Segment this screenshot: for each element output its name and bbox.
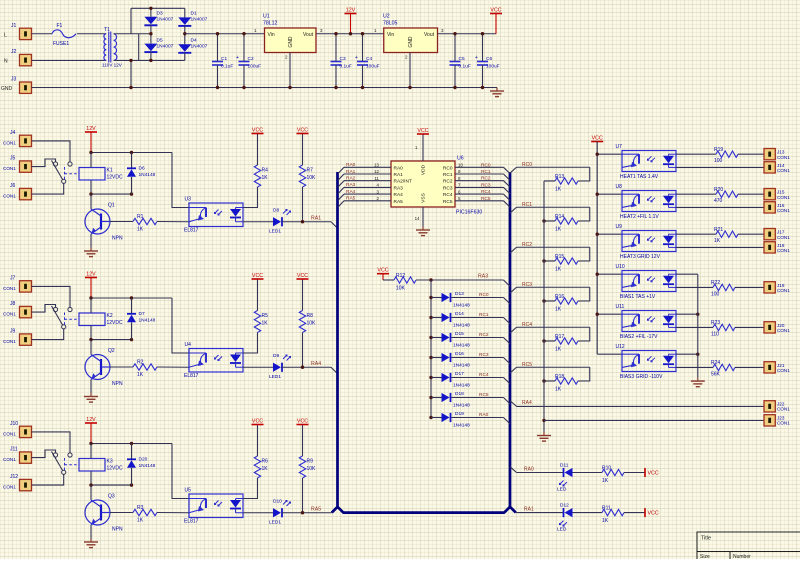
fuse F1 — [52, 30, 76, 38]
wire DC rail to U1 — [185, 33, 265, 35]
wire base resistor to opto — [157, 366, 189, 368]
junction — [89, 296, 92, 299]
svg-text:110: 110 — [711, 331, 719, 337]
bus entry — [330, 512, 333, 514]
bus entry — [504, 358, 511, 364]
svg-text:RA1: RA1 — [311, 216, 321, 222]
diode D7 — [131, 298, 133, 314]
wire net RC4 from bus — [510, 327, 517, 333]
wire VCC to opto U11 — [597, 313, 622, 315]
svg-text:CON1: CON1 — [777, 288, 790, 293]
junction — [481, 32, 484, 35]
wire led to resistor R10 — [573, 472, 603, 474]
svg-text:N: N — [4, 59, 8, 65]
svg-text:CON1: CON1 — [777, 407, 790, 412]
svg-text:R6: R6 — [262, 459, 269, 465]
svg-text:RC1: RC1 — [443, 172, 453, 178]
wire opto out bottom — [676, 326, 713, 328]
svg-text:J11: J11 — [10, 447, 18, 453]
wire fuse to transformer — [77, 33, 106, 35]
junction — [242, 86, 245, 89]
svg-text:RA4: RA4 — [522, 400, 532, 406]
svg-text:RC4: RC4 — [522, 322, 532, 328]
junction — [429, 316, 432, 319]
svg-text:K1: K1 — [107, 168, 113, 174]
svg-text:RC2: RC2 — [479, 332, 489, 338]
optocoupler U7 — [622, 151, 676, 172]
svg-text:EL817: EL817 — [184, 519, 199, 525]
capacitor C1 — [217, 34, 219, 62]
junction — [301, 220, 304, 223]
junction — [130, 151, 133, 154]
wire relay top — [90, 444, 92, 459]
svg-text:Q2: Q2 — [108, 348, 115, 354]
svg-text:10K: 10K — [307, 321, 317, 327]
bus entry — [504, 398, 511, 404]
wire led to bus stub — [282, 366, 331, 368]
svg-text:1N4148: 1N4148 — [139, 463, 156, 469]
resistor R15 — [555, 258, 578, 264]
junction — [242, 32, 245, 35]
svg-text:1K: 1K — [602, 478, 609, 484]
svg-text:1N4007: 1N4007 — [157, 17, 174, 23]
pin VDD wire — [422, 134, 424, 161]
resistor R17 — [555, 338, 578, 344]
svg-text:VCC: VCC — [252, 127, 263, 133]
wire base resistor to opto — [157, 512, 189, 514]
junction — [696, 313, 699, 316]
svg-text:CON1: CON1 — [777, 155, 790, 160]
ground channel — [90, 393, 92, 397]
resistor R4 — [254, 165, 260, 187]
junction — [542, 219, 545, 222]
svg-text:10K: 10K — [396, 286, 406, 292]
led D12 — [563, 508, 565, 517]
optocoupler U12 — [622, 351, 676, 372]
connector J22 — [764, 401, 775, 412]
bus entry — [331, 222, 338, 229]
svg-text:J10: J10 — [10, 421, 18, 427]
svg-text:1K: 1K — [555, 187, 562, 193]
svg-text:RA5: RA5 — [346, 196, 356, 202]
svg-text:J12: J12 — [10, 474, 18, 480]
connector J3 — [20, 82, 32, 93]
junction — [596, 233, 599, 236]
junction — [696, 353, 699, 356]
wire rail to opto top — [172, 298, 189, 353]
relay blade — [52, 452, 63, 471]
svg-text:C3: C3 — [340, 56, 346, 62]
svg-text:U3: U3 — [185, 197, 192, 203]
wire net RC3 from bus — [510, 287, 517, 293]
junction — [542, 419, 545, 422]
svg-text:1K: 1K — [137, 227, 144, 233]
svg-text:RC3: RC3 — [522, 282, 532, 288]
wire resistor to connector — [738, 233, 764, 235]
ic U6 PIC16F630 — [391, 161, 455, 207]
wire net RC1 from bus — [510, 207, 517, 213]
connector J13 — [764, 149, 775, 160]
bus entry — [504, 318, 511, 324]
wire relay bottom rail — [91, 193, 132, 195]
regulator U1 — [265, 28, 317, 53]
junction — [130, 483, 133, 486]
svg-text:1K: 1K — [262, 321, 269, 327]
wire collector — [90, 340, 92, 355]
svg-text:1N4148: 1N4148 — [453, 323, 470, 329]
connector J18 — [764, 242, 775, 253]
svg-text:C2: C2 — [248, 56, 254, 62]
led D9 — [273, 363, 281, 372]
wire net RC0 from bus — [510, 167, 517, 173]
wire opto out — [243, 512, 273, 514]
svg-text:0.1uF: 0.1uF — [221, 64, 233, 70]
svg-text:R21: R21 — [714, 227, 723, 233]
wire corner to resistor — [578, 287, 590, 301]
svg-text:CON1: CON1 — [777, 195, 790, 200]
resistor R11 — [602, 509, 624, 515]
resistor R10 — [602, 469, 624, 475]
junction — [216, 86, 219, 89]
bus entry — [331, 367, 338, 374]
svg-text:RA1: RA1 — [394, 172, 404, 178]
junction — [596, 273, 599, 276]
resistor R2 — [110, 366, 133, 368]
wire corner to resistor — [578, 207, 590, 221]
junction — [596, 193, 599, 196]
svg-text:1K: 1K — [137, 372, 144, 378]
junction — [301, 366, 304, 369]
wire collector — [90, 194, 92, 209]
junction — [542, 299, 545, 302]
resistor R14 — [555, 218, 578, 224]
svg-text:D13: D13 — [455, 291, 464, 297]
svg-text:100uF: 100uF — [486, 64, 500, 70]
svg-text:RC0: RC0 — [522, 162, 532, 168]
wire rail to opto top — [172, 153, 189, 208]
svg-text:14: 14 — [415, 216, 420, 221]
connector J1 — [20, 28, 32, 39]
connector J15 — [764, 189, 775, 200]
svg-text:BIAS2 +FIL -17V: BIAS2 +FIL -17V — [620, 334, 658, 340]
svg-text:CON1: CON1 — [3, 194, 16, 199]
svg-text:R14: R14 — [555, 214, 564, 220]
svg-text:R12: R12 — [396, 273, 405, 279]
svg-text:F1: F1 — [57, 23, 63, 29]
wire 12V rail — [91, 152, 172, 154]
svg-text:RA4: RA4 — [394, 192, 404, 198]
svg-text:1N4148: 1N4148 — [453, 383, 470, 389]
svg-text:U2: U2 — [383, 14, 390, 20]
wire resistor to common — [544, 380, 555, 382]
wire opto top to common — [676, 273, 698, 275]
wire VCC to opto U9 — [597, 233, 622, 235]
diode D6 — [131, 153, 133, 169]
svg-text:78L12: 78L12 — [263, 21, 278, 27]
svg-text:U12: U12 — [616, 344, 625, 350]
svg-text:12VDC: 12VDC — [107, 320, 124, 326]
svg-text:CON1: CON1 — [777, 328, 790, 333]
svg-text:RA0: RA0 — [394, 165, 404, 171]
svg-text:GND: GND — [288, 36, 294, 48]
ground main — [496, 88, 498, 92]
svg-text:RA1: RA1 — [346, 169, 356, 175]
svg-text:12V: 12V — [86, 271, 96, 277]
svg-text:VCC: VCC — [490, 7, 501, 13]
wire corner to resistor — [578, 167, 590, 181]
wire relay bottom rail — [91, 339, 132, 341]
svg-text:+: + — [236, 55, 239, 61]
wire net RA4 to J22 — [510, 401, 517, 407]
svg-text:U4: U4 — [185, 342, 192, 348]
junction — [149, 32, 152, 35]
svg-text:Title: Title — [701, 536, 711, 542]
wire corner to resistor — [578, 367, 590, 381]
svg-text:LED1: LED1 — [269, 374, 281, 380]
connector J21 — [764, 362, 775, 373]
svg-text:10K: 10K — [307, 175, 317, 181]
svg-text:Number: Number — [733, 554, 751, 559]
resistor R18 — [555, 378, 578, 384]
svg-text:U10: U10 — [616, 264, 625, 270]
wire rail to opto top — [172, 444, 189, 499]
wire opto out bottom — [676, 206, 764, 208]
junction — [361, 32, 364, 35]
bus entry RA3 — [504, 280, 511, 286]
svg-text:RC4: RC4 — [479, 372, 489, 378]
wire opto to resistor R6 — [243, 478, 258, 499]
svg-text:1N4148: 1N4148 — [453, 403, 470, 409]
resistor R19 — [716, 151, 738, 157]
svg-text:FUSE1: FUSE1 — [53, 41, 69, 47]
svg-text:Vout: Vout — [424, 32, 435, 38]
junction — [183, 32, 186, 35]
resistor R24 — [713, 364, 735, 370]
junction — [542, 379, 545, 382]
svg-text:VCC: VCC — [252, 418, 263, 424]
svg-text:CON1: CON1 — [3, 485, 16, 490]
diode D20 — [131, 444, 133, 460]
svg-text:12VDC: 12VDC — [107, 175, 124, 181]
optocoupler U5 — [189, 494, 243, 518]
relay blade — [52, 161, 63, 180]
svg-text:D7: D7 — [139, 311, 145, 317]
resistor R12 — [383, 279, 394, 281]
svg-text:RC3: RC3 — [481, 182, 491, 188]
svg-text:J7: J7 — [10, 276, 16, 282]
junction — [429, 376, 432, 379]
led D10 — [273, 508, 281, 517]
wire opto out bottom — [676, 286, 713, 288]
resistor R22 — [713, 284, 735, 290]
svg-text:RC3: RC3 — [479, 352, 489, 358]
svg-text:+: + — [355, 55, 358, 61]
junction — [429, 416, 432, 419]
junction — [596, 313, 599, 316]
svg-text:1K: 1K — [555, 387, 562, 393]
wire resistor to connector — [738, 153, 764, 155]
wire VCC column — [596, 142, 598, 355]
svg-text:R19: R19 — [714, 147, 723, 153]
pin VSS wire — [422, 207, 424, 227]
svg-text:C1: C1 — [221, 56, 227, 62]
wire J to contact right — [32, 432, 71, 453]
svg-text:110V 12V: 110V 12V — [102, 63, 123, 68]
wire led to bus stub — [282, 221, 331, 223]
svg-text:R5: R5 — [262, 313, 269, 319]
svg-text:R15: R15 — [555, 254, 564, 260]
svg-text:Q1: Q1 — [108, 203, 115, 209]
svg-text:1N4148: 1N4148 — [139, 172, 156, 178]
svg-text:R24: R24 — [711, 360, 720, 366]
wire opto out bottom — [676, 166, 764, 168]
svg-text:C5: C5 — [459, 56, 465, 62]
svg-text:J6: J6 — [10, 183, 16, 189]
wire J1 to fuse — [32, 33, 53, 35]
svg-text:78L05: 78L05 — [383, 21, 398, 27]
svg-text:1K: 1K — [262, 466, 269, 472]
bus entry — [504, 338, 511, 344]
wire net RA1 from bus — [516, 512, 564, 514]
wire J to contact common — [32, 184, 64, 195]
svg-text:HEAT1 TAS 1.4V: HEAT1 TAS 1.4V — [620, 174, 659, 180]
svg-text:R20: R20 — [714, 187, 723, 193]
wire secondary bottom AC2 — [114, 59, 185, 61]
svg-text:1N4148: 1N4148 — [453, 423, 470, 429]
svg-text:R4: R4 — [262, 168, 269, 174]
svg-text:PIC16F630: PIC16F630 — [456, 210, 482, 216]
svg-text:CON1: CON1 — [3, 140, 16, 145]
junction — [216, 32, 219, 35]
resistor R5 — [254, 311, 260, 333]
optocoupler U8 — [622, 191, 676, 212]
connector J12 — [20, 479, 32, 490]
wire VCC to opto U7 — [597, 153, 622, 155]
resistor R21 — [716, 231, 738, 237]
resistor R6 — [254, 456, 260, 478]
wire resistor to VCC — [624, 472, 645, 474]
svg-text:D5: D5 — [157, 38, 163, 44]
svg-text:VCC: VCC — [252, 273, 263, 279]
diode D5 — [144, 44, 157, 52]
svg-text:R13: R13 — [555, 174, 564, 180]
svg-text:D19: D19 — [455, 411, 464, 417]
junction — [349, 32, 352, 35]
junction — [130, 296, 133, 299]
junction — [301, 511, 304, 514]
svg-text:470: 470 — [714, 198, 723, 204]
junction — [453, 32, 456, 35]
junction — [542, 259, 545, 262]
svg-text:R17: R17 — [555, 334, 564, 340]
transistor Q3 — [85, 500, 110, 525]
svg-text:RC5: RC5 — [443, 199, 453, 205]
svg-text:VCC: VCC — [417, 128, 428, 134]
wire resistor to common — [544, 180, 555, 182]
svg-text:RC0: RC0 — [479, 292, 489, 298]
svg-text:1N4148: 1N4148 — [453, 343, 470, 349]
svg-text:RA2/INT: RA2/INT — [394, 179, 412, 185]
svg-text:U5: U5 — [185, 488, 192, 494]
connector J8 — [20, 306, 32, 317]
resistor R9 — [299, 456, 305, 478]
wire opto out — [243, 366, 273, 368]
wire emitter to ground — [90, 234, 92, 248]
junction — [429, 278, 432, 281]
wire crosslink — [138, 34, 140, 61]
wire emitter to ground — [90, 380, 92, 394]
resistor R7 — [299, 165, 305, 187]
junction — [149, 59, 152, 62]
wire collector — [90, 485, 92, 500]
svg-text:RA3: RA3 — [394, 185, 404, 191]
junction — [288, 86, 291, 89]
svg-text:U9: U9 — [616, 224, 623, 230]
svg-text:LED: LED — [557, 487, 567, 493]
svg-text:0.1uF: 0.1uF — [459, 64, 471, 70]
svg-text:R10: R10 — [602, 466, 611, 472]
wire J to contact left — [32, 450, 56, 458]
svg-text:1N4007: 1N4007 — [157, 44, 174, 50]
junction — [453, 86, 456, 89]
ground resistor common — [543, 432, 545, 436]
wire R12 to bus — [416, 279, 504, 281]
svg-text:100: 100 — [711, 291, 720, 297]
svg-text:CON1: CON1 — [3, 166, 16, 171]
junction — [429, 356, 432, 359]
svg-text:D11: D11 — [560, 463, 569, 469]
svg-text:R2: R2 — [137, 360, 144, 366]
wire opto to resistor R5 — [243, 333, 258, 354]
svg-text:Size: Size — [700, 554, 710, 559]
connector J6 — [20, 188, 32, 199]
svg-text:R8: R8 — [307, 313, 314, 319]
wire 12V rail — [91, 297, 172, 299]
junction — [129, 86, 132, 89]
junction — [129, 59, 132, 62]
svg-text:GND: GND — [408, 36, 414, 48]
svg-text:RC2: RC2 — [522, 242, 532, 248]
resistor R8 — [299, 311, 305, 333]
svg-text:D12: D12 — [560, 503, 569, 509]
svg-text:D3: D3 — [157, 11, 163, 17]
svg-text:HEAT3 GRID 12V: HEAT3 GRID 12V — [620, 254, 661, 260]
connector J2 — [20, 54, 32, 65]
wire J to contact right — [32, 286, 71, 307]
wire relay bottom — [90, 326, 92, 340]
svg-text:RC1: RC1 — [522, 202, 532, 208]
wire U1 out rail — [316, 33, 384, 35]
svg-text:VCC: VCC — [297, 273, 308, 279]
connector J9 — [20, 334, 32, 345]
svg-text:VSS: VSS — [421, 193, 427, 203]
svg-text:RC4: RC4 — [481, 189, 491, 195]
connector J7 — [20, 281, 32, 292]
relay K2 coil — [79, 313, 105, 326]
svg-text:1N4007: 1N4007 — [191, 17, 208, 23]
optocoupler U4 — [189, 349, 243, 373]
wire J to contact common — [32, 475, 64, 486]
connector J11 — [20, 452, 32, 463]
svg-text:10K: 10K — [307, 466, 317, 472]
svg-text:D14: D14 — [455, 311, 464, 317]
svg-text:RA5: RA5 — [394, 199, 404, 205]
svg-text:R11: R11 — [602, 506, 611, 512]
wire opto to resistor R4 — [243, 187, 258, 208]
svg-text:RA0: RA0 — [524, 467, 534, 473]
wire led to resistor R11 — [573, 512, 603, 514]
wire opto out bottom — [676, 246, 764, 248]
